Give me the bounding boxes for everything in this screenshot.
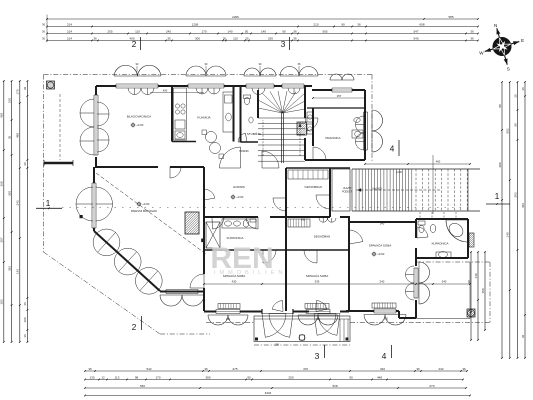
svg-text:PODEST: PODEST (342, 190, 352, 193)
svg-text:460: 460 (301, 219, 306, 222)
svg-text:400: 400 (163, 88, 168, 92)
svg-text:160: 160 (316, 318, 321, 321)
svg-text:36: 36 (470, 36, 474, 40)
svg-text:339: 339 (315, 279, 320, 283)
svg-text:SPAVAĆA SOBA: SPAVAĆA SOBA (306, 273, 329, 278)
svg-text:DEGAŽMAN: DEGAŽMAN (314, 234, 330, 239)
svg-text:380: 380 (205, 375, 210, 379)
svg-text:540: 540 (413, 36, 418, 40)
svg-text:170: 170 (16, 89, 20, 94)
svg-text:3334: 3334 (265, 391, 272, 395)
svg-text:+3.00: +3.00 (136, 123, 144, 127)
svg-text:340: 340 (380, 222, 385, 226)
svg-text:140: 140 (227, 29, 232, 33)
svg-text:368: 368 (0, 181, 4, 186)
svg-text:1: 1 (495, 191, 500, 201)
svg-text:+0.00: +0.00 (377, 252, 385, 256)
svg-text:90: 90 (349, 375, 353, 379)
svg-text:542: 542 (146, 367, 151, 371)
svg-text:90: 90 (341, 22, 345, 26)
svg-text:KUPAONICA: KUPAONICA (227, 236, 244, 240)
svg-text:20: 20 (223, 36, 227, 40)
svg-text:16x18/25: 16x18/25 (372, 189, 382, 191)
svg-text:+3.00: +3.00 (396, 172, 403, 174)
svg-text:430: 430 (232, 279, 237, 283)
svg-text:460: 460 (436, 160, 441, 164)
svg-text:207: 207 (0, 237, 4, 242)
svg-text:560: 560 (140, 384, 145, 388)
svg-text:250: 250 (288, 375, 293, 379)
svg-text:245: 245 (166, 29, 171, 33)
svg-text:STUBIŠTE: STUBIŠTE (247, 131, 261, 136)
svg-text:3: 3 (281, 39, 286, 49)
svg-text:PRAONICA: PRAONICA (325, 136, 340, 140)
svg-text:340: 340 (380, 367, 385, 371)
svg-text:35: 35 (167, 36, 171, 40)
svg-text:E: E (521, 38, 524, 43)
svg-text:283: 283 (513, 192, 517, 197)
svg-text:565: 565 (322, 29, 327, 33)
svg-text:275: 275 (232, 367, 237, 371)
svg-text:368: 368 (7, 191, 11, 196)
svg-text:547: 547 (413, 29, 418, 33)
svg-text:698: 698 (419, 22, 424, 26)
svg-text:243: 243 (16, 200, 20, 205)
svg-text:25: 25 (245, 36, 249, 40)
svg-text:25: 25 (513, 94, 517, 98)
svg-text:90: 90 (282, 29, 286, 33)
svg-text:VJETROBRAN: VJETROBRAN (304, 185, 322, 189)
svg-text:36: 36 (357, 22, 361, 26)
svg-text:36: 36 (462, 367, 466, 371)
svg-text:36: 36 (88, 367, 92, 371)
svg-text:438: 438 (0, 113, 4, 118)
svg-text:50: 50 (245, 29, 249, 33)
svg-text:36: 36 (23, 87, 27, 91)
svg-text:470: 470 (303, 367, 308, 371)
svg-text:N: N (494, 23, 497, 28)
svg-text:KUHINJA: KUHINJA (197, 116, 211, 120)
svg-text:250: 250 (275, 344, 280, 347)
svg-text:240: 240 (226, 318, 231, 321)
svg-text:30: 30 (7, 136, 11, 140)
svg-text:4: 4 (390, 144, 395, 154)
svg-text:140: 140 (506, 232, 510, 237)
svg-text:90: 90 (247, 375, 251, 379)
svg-text:36: 36 (23, 302, 27, 306)
svg-text:36: 36 (521, 87, 525, 91)
svg-text:W: W (479, 51, 484, 56)
svg-text:36: 36 (93, 36, 97, 40)
svg-text:528: 528 (332, 384, 337, 388)
svg-text:KUPAONICA: KUPAONICA (432, 242, 449, 246)
svg-text:36: 36 (521, 335, 525, 339)
svg-text:142: 142 (16, 269, 20, 274)
svg-text:100: 100 (7, 98, 11, 103)
svg-text:488: 488 (16, 133, 20, 138)
svg-text:36: 36 (416, 367, 420, 371)
svg-text:140: 140 (261, 29, 266, 33)
svg-text:183: 183 (0, 299, 4, 304)
svg-text:150: 150 (481, 288, 485, 293)
svg-text:12: 12 (101, 375, 105, 379)
svg-text:214: 214 (67, 36, 72, 40)
svg-text:280: 280 (498, 162, 502, 167)
svg-text:257: 257 (337, 94, 342, 98)
svg-text:90: 90 (513, 123, 517, 127)
svg-text:2: 2 (132, 39, 137, 49)
svg-text:IMMOBILIEN: IMMOBILIEN (214, 270, 286, 276)
svg-text:SPAVAĆA SOBA: SPAVAĆA SOBA (369, 243, 392, 248)
svg-text:214: 214 (67, 22, 72, 26)
svg-text:2206: 2206 (232, 15, 239, 19)
svg-text:+3.00: +3.00 (142, 202, 150, 206)
svg-text:448: 448 (377, 375, 382, 379)
svg-text:88: 88 (498, 104, 502, 108)
svg-text:205: 205 (107, 29, 112, 33)
svg-text:36: 36 (293, 36, 297, 40)
svg-text:140: 140 (474, 273, 478, 278)
svg-text:300: 300 (195, 36, 200, 40)
svg-text:HODNIK: HODNIK (233, 185, 245, 189)
svg-text:36: 36 (470, 29, 474, 33)
svg-text:BLAGOVAONICA: BLAGOVAONICA (127, 115, 152, 119)
svg-text:3: 3 (315, 351, 320, 361)
svg-text:170: 170 (155, 375, 160, 379)
svg-text:1: 1 (46, 198, 51, 208)
svg-text:HODNIK: HODNIK (239, 150, 249, 153)
svg-text:585: 585 (448, 15, 453, 19)
svg-text:36: 36 (204, 367, 208, 371)
svg-text:+3.00: +3.00 (236, 195, 244, 199)
svg-text:340: 340 (442, 279, 447, 283)
svg-text:110: 110 (135, 29, 140, 33)
svg-text:98: 98 (135, 375, 139, 379)
svg-text:540: 540 (380, 279, 385, 283)
svg-text:673: 673 (429, 384, 434, 388)
svg-text:4: 4 (382, 351, 387, 361)
svg-text:36: 36 (23, 334, 27, 338)
svg-text:DNEVNI BORAVAK: DNEVNI BORAVAK (131, 209, 157, 213)
svg-text:502: 502 (506, 128, 510, 133)
svg-text:S: S (507, 67, 510, 72)
svg-text:392: 392 (7, 266, 11, 271)
svg-text:36: 36 (23, 162, 27, 166)
svg-text:1206: 1206 (192, 22, 199, 26)
svg-text:113: 113 (115, 375, 120, 379)
svg-text:36: 36 (293, 29, 297, 33)
svg-text:250: 250 (268, 36, 273, 40)
svg-text:232: 232 (438, 367, 443, 371)
svg-text:170: 170 (201, 29, 206, 33)
svg-text:110: 110 (233, 36, 238, 40)
svg-text:210: 210 (313, 22, 318, 26)
svg-text:130: 130 (89, 375, 94, 379)
svg-text:2: 2 (132, 322, 137, 332)
svg-text:220: 220 (384, 318, 389, 321)
svg-text:100: 100 (23, 317, 27, 322)
svg-text:466: 466 (521, 203, 525, 208)
svg-text:214: 214 (67, 29, 72, 33)
